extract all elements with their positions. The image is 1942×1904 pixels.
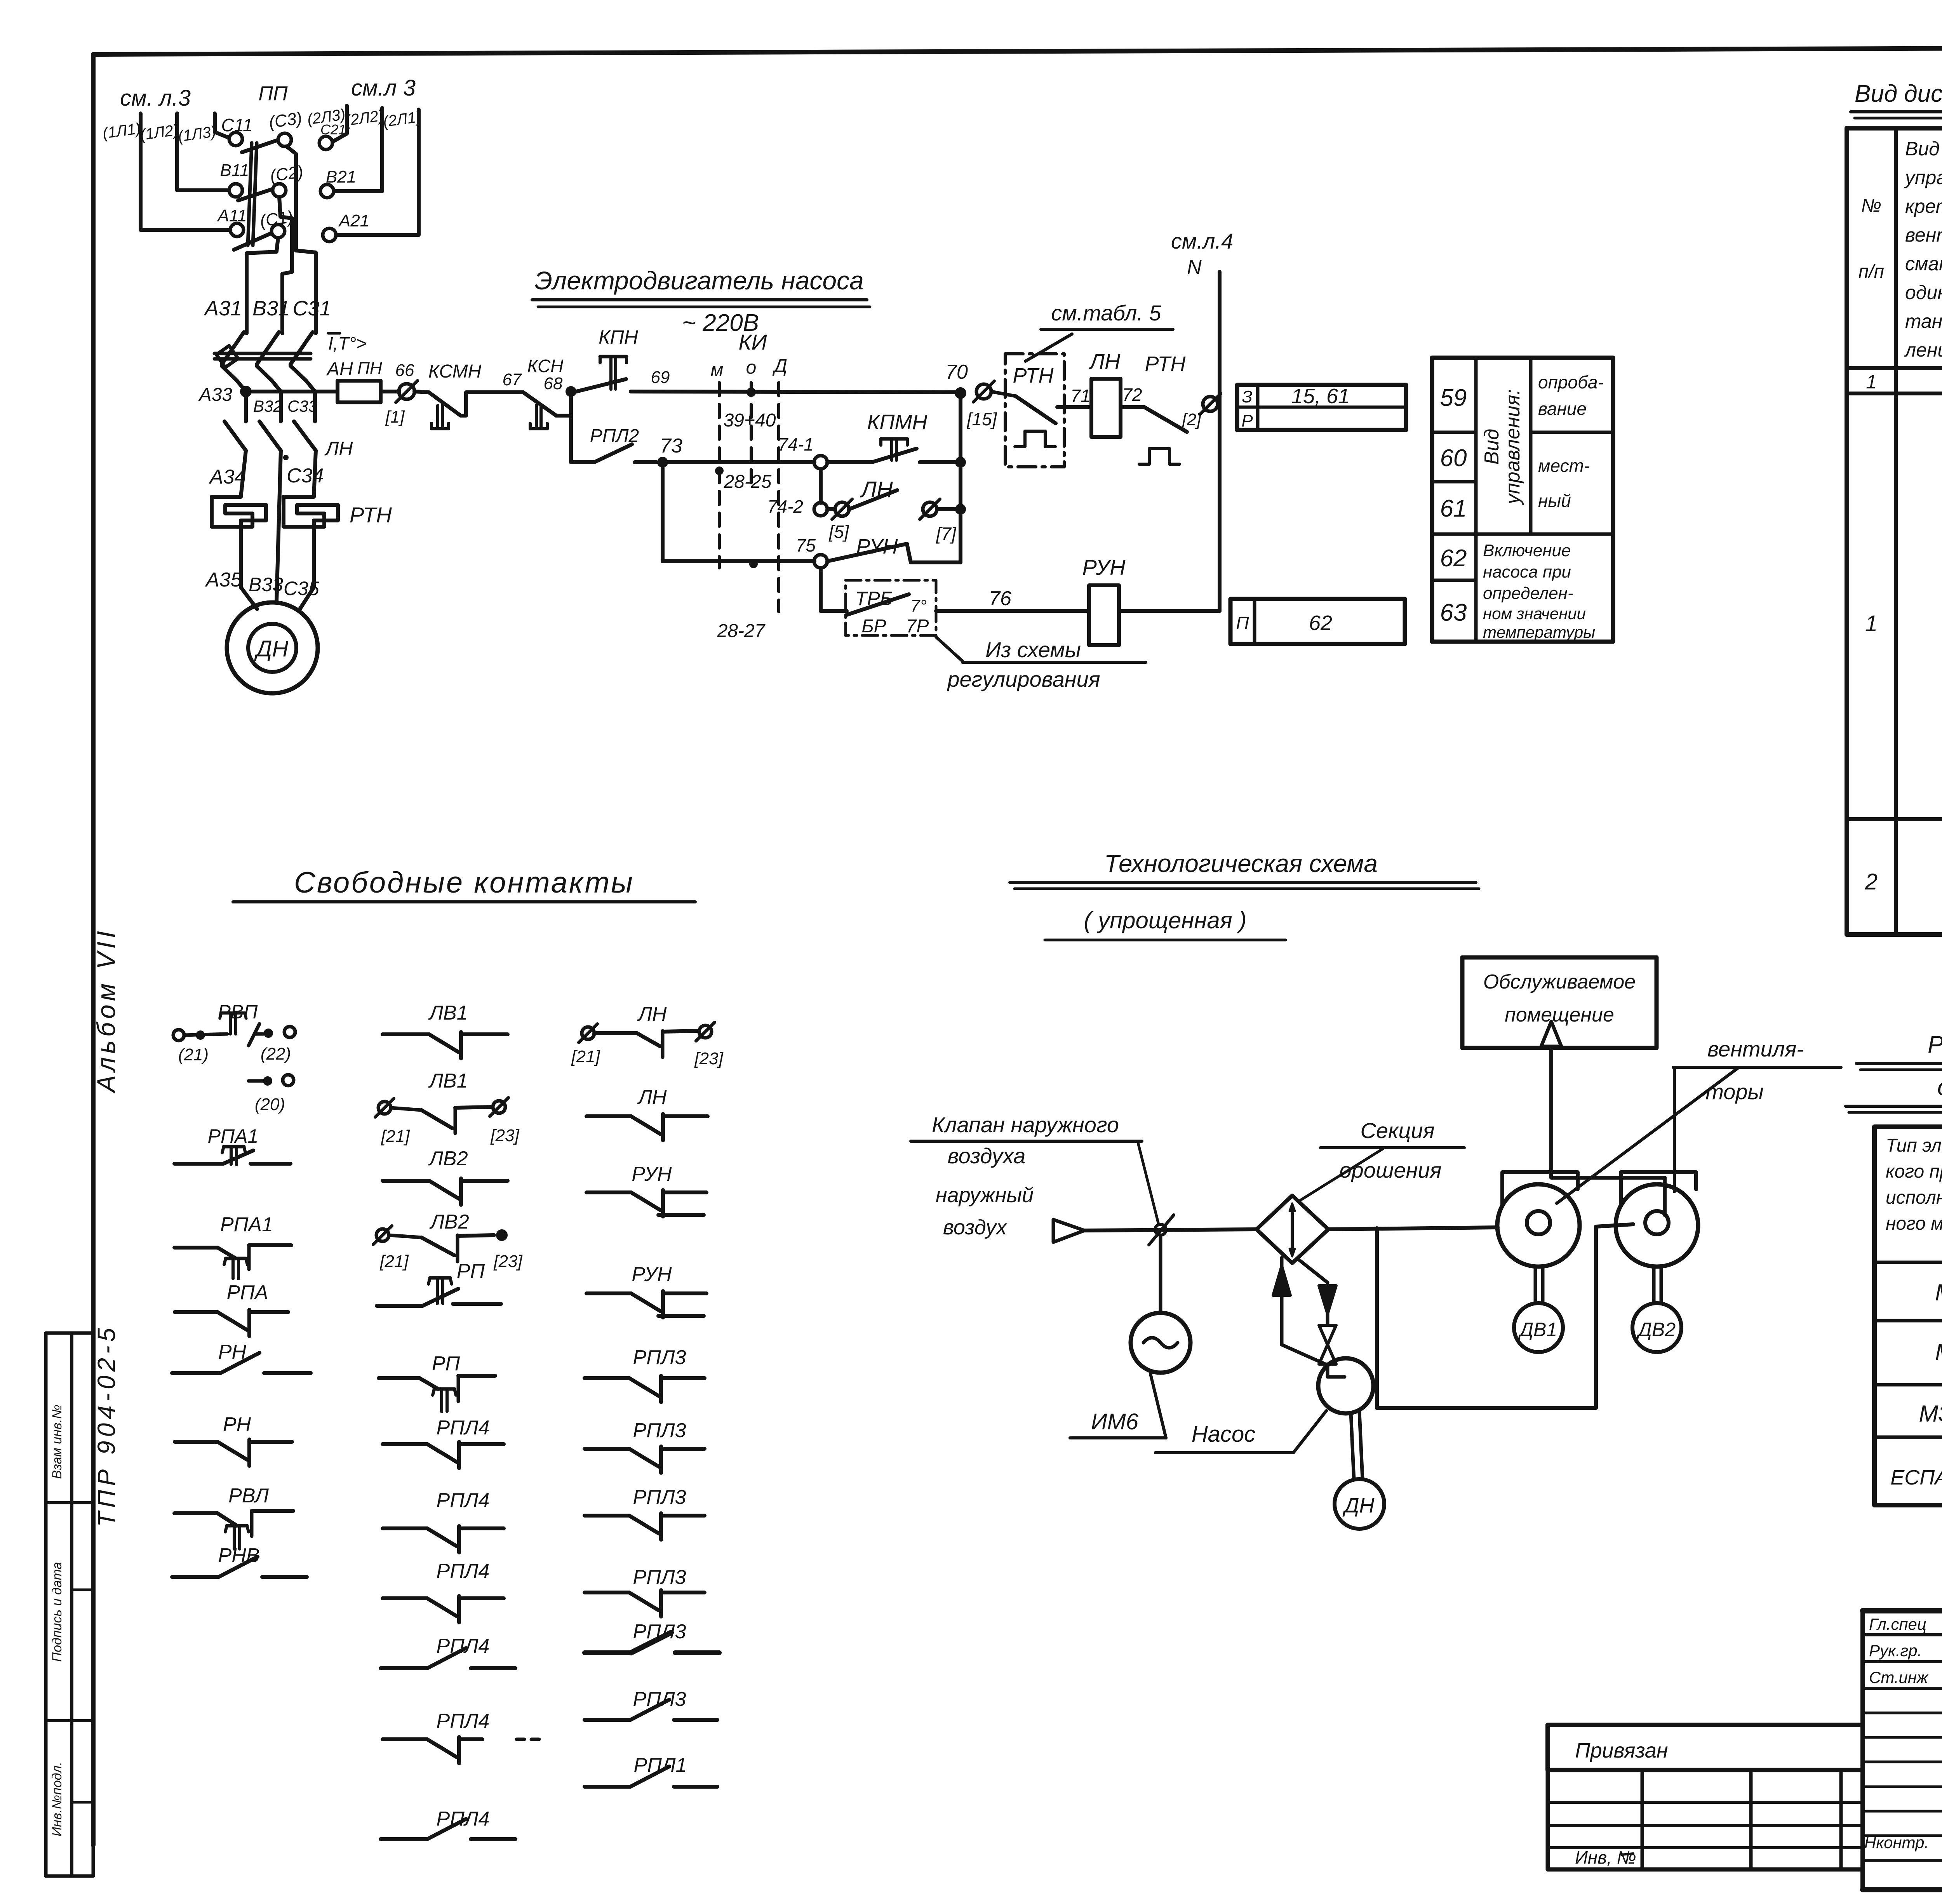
svg-text:[21]: [21] — [379, 1252, 409, 1271]
contact РТН blade — [991, 392, 1016, 396]
contactor ЛН blade C — [294, 421, 316, 451]
contact КСМН blade — [414, 392, 429, 392]
нижняя таблица row3 — [1548, 1846, 1863, 1849]
svg-text:РУН: РУН — [632, 1263, 672, 1286]
contact РП 2 — [379, 1376, 419, 1380]
fan ДВ1 shaft — [1534, 1267, 1537, 1303]
wire row3 — [663, 559, 814, 563]
margin stamp divider row1 — [46, 1501, 93, 1504]
svg-text:Секция: Секция — [1360, 1118, 1434, 1143]
duct line to fans — [1328, 1227, 1498, 1229]
svg-text:РПЛ3: РПЛ3 — [633, 1688, 686, 1711]
contact ТРБ blade — [847, 594, 909, 615]
room arrow triangle — [1541, 1022, 1561, 1046]
svg-text:А34: А34 — [209, 466, 246, 488]
hook КСН — [535, 406, 538, 429]
svg-text:А11: А11 — [216, 206, 247, 225]
label Клапан underline — [911, 1140, 1142, 1143]
svg-text:Технологическая схема: Технологическая схема — [1104, 849, 1378, 877]
duct line inlet — [1084, 1229, 1256, 1230]
wire 74-2 to [5] — [827, 507, 835, 511]
dashed line д — [777, 383, 780, 612]
wire ЛН coil to РТН2 — [1121, 405, 1144, 409]
bypass loop — [1377, 1227, 1596, 1408]
svg-text:N: N — [1187, 256, 1202, 278]
relay box РТН — [1005, 354, 1064, 467]
svg-text:А33: А33 — [198, 385, 233, 405]
switch ПП blade 2 — [238, 189, 272, 200]
svg-text:АН: АН — [326, 359, 353, 379]
box З-Р divider h — [1237, 406, 1406, 409]
svg-text:ЛВ1: ЛВ1 — [428, 1002, 468, 1024]
signature row 4278 — [1863, 1660, 1942, 1663]
svg-text:(22): (22) — [261, 1044, 291, 1063]
table2 outer — [1847, 128, 1942, 935]
contact ЛВ1 — [383, 1032, 429, 1036]
svg-text:2: 2 — [1865, 869, 1878, 895]
svg-text:торы: торы — [1705, 1079, 1764, 1104]
svg-text:1: 1 — [1866, 371, 1877, 393]
wire step КСМН-67 — [461, 392, 523, 416]
dashed line м — [718, 383, 721, 568]
svg-text:помещение: помещение — [1505, 1004, 1614, 1026]
signature thin row 4536 — [1863, 1761, 1942, 1763]
wire collector vertical — [959, 393, 962, 562]
svg-text:Нконтр.: Нконтр. — [1864, 1833, 1929, 1852]
svg-text:В31: В31 — [252, 297, 290, 320]
pulse mark РТН — [1015, 431, 1055, 447]
table вид управления col2 line — [1529, 358, 1533, 534]
table вид управления row line 3 — [1432, 579, 1476, 582]
leader Секция — [1300, 1149, 1383, 1200]
wire 2Л1 feeder — [336, 110, 419, 235]
svg-text:РТН: РТН — [1145, 352, 1186, 376]
wire feed А33 to fuse — [246, 390, 338, 393]
terminal 75 — [814, 555, 827, 568]
привязан box — [1548, 1725, 1863, 1770]
junction 39-40 on о line — [747, 388, 756, 397]
contact circle [15] — [976, 384, 991, 399]
spray diamond arrow — [1291, 1206, 1294, 1254]
contact РУН c1 — [586, 1190, 631, 1194]
svg-text:А21: А21 — [338, 211, 369, 230]
inlet air triangle — [1053, 1220, 1084, 1242]
contact РПА1 2 — [174, 1246, 218, 1250]
svg-text:Рук.гр.: Рук.гр. — [1869, 1641, 1922, 1660]
wire РТН to ЛН coil — [1057, 405, 1091, 409]
contact РУН blade — [827, 544, 907, 561]
svg-text:ления): ления) — [1904, 339, 1942, 361]
signature thin row 4410 — [1863, 1712, 1942, 1714]
svg-text:воздуха: воздуха — [948, 1143, 1026, 1168]
title underline r1 — [1857, 1062, 1942, 1065]
pump Насос circle — [1318, 1358, 1373, 1413]
svg-text:ЛН: ЛН — [1089, 349, 1121, 374]
manifold drop to fan2 — [1663, 1178, 1667, 1215]
terminal A11 — [230, 223, 244, 237]
svg-text:РПЛ4: РПЛ4 — [437, 1417, 490, 1439]
relay box ТРБ-БР — [846, 580, 936, 635]
svg-text:см.л 3: см.л 3 — [351, 75, 416, 101]
contact ЛВ1 2 — [378, 1102, 391, 1114]
svg-text:76: 76 — [989, 587, 1011, 610]
wire C into motor — [300, 555, 314, 609]
svg-text:РПЛ3: РПЛ3 — [633, 1486, 686, 1509]
title Свободные underline — [233, 900, 695, 903]
svg-text:см.табл. 5: см.табл. 5 — [1051, 301, 1161, 325]
terminal C11 — [229, 132, 242, 146]
svg-text:В32: В32 — [253, 397, 282, 415]
fuse ПН — [338, 381, 381, 402]
contact РПЛ3 #1 — [585, 1376, 629, 1380]
leader клапан — [1138, 1143, 1158, 1223]
table вид управления row line 0 — [1432, 431, 1476, 434]
leader вентиляторы 2 — [1673, 1067, 1676, 1192]
wire phase A to РТН — [241, 451, 246, 497]
svg-text:Вид дистанционного: Вид дистанционного — [1905, 138, 1942, 160]
terminal (С3) — [278, 133, 291, 146]
svg-text:Взам инв.№: Взам инв.№ — [50, 1405, 64, 1479]
label см.табл.5 underline — [1041, 328, 1173, 331]
table вид управления col1 line — [1474, 358, 1478, 642]
svg-text:ПП: ПП — [258, 82, 288, 105]
svg-text:ного механизма: ного механизма — [1886, 1213, 1942, 1234]
svg-text:вание: вание — [1538, 399, 1587, 419]
wire damper to ИМБ — [1159, 1235, 1162, 1313]
svg-text:Электродвигатель насоса: Электродвигатель насоса — [534, 266, 864, 295]
switch ПП blade 1 — [242, 140, 277, 152]
svg-text:РТН: РТН — [350, 503, 392, 527]
contact РПЛ3 #3 — [585, 1514, 629, 1518]
table4 outer — [1874, 1127, 1942, 1505]
wire [2] to N line — [1217, 400, 1220, 402]
wire C1 drop — [247, 238, 278, 333]
svg-text:Клапан наружного: Клапан наружного — [932, 1112, 1119, 1137]
svg-text:Инв.№подл.: Инв.№подл. — [50, 1762, 64, 1836]
svg-text:ном значении: ном значении — [1483, 604, 1586, 623]
wire C3 drop — [287, 146, 316, 333]
svg-text:68: 68 — [544, 374, 563, 393]
нижняя таблица row2 — [1548, 1824, 1863, 1827]
svg-text:[15]: [15] — [967, 409, 997, 429]
wire 75 down to ТРБ — [821, 568, 847, 611]
svg-text:КСН: КСН — [527, 356, 564, 376]
contact РПЛ3 #2 — [585, 1447, 629, 1451]
wire 1Л3 feeder — [215, 113, 229, 138]
drain pipe with arrow — [1297, 1258, 1328, 1283]
svg-text:см. л.3: см. л.3 — [120, 85, 191, 111]
contact РПЛ3 #6 — [585, 1718, 630, 1722]
table4 row line y3400 — [1874, 1319, 1942, 1323]
terminal 74-2 — [814, 503, 827, 516]
svg-text:74-1: 74-1 — [778, 434, 814, 454]
box П 62 — [1230, 599, 1405, 644]
svg-text:РПЛ3: РПЛ3 — [633, 1419, 686, 1442]
contact РВП lower terminal — [249, 1079, 264, 1083]
contact ЛН blade — [849, 490, 897, 509]
contact ЛН c2 — [586, 1114, 631, 1118]
svg-text:( упрощенная ): ( упрощенная ) — [1084, 907, 1247, 933]
contact circle 66 [1] — [399, 384, 414, 399]
contact КПМН blade — [872, 449, 917, 462]
svg-text:7°: 7° — [910, 597, 927, 616]
wire step КСН-68 — [556, 392, 571, 416]
svg-text:управления:: управления: — [1502, 389, 1524, 505]
svg-text:регулирования: регулирования — [947, 667, 1100, 691]
svg-text:70: 70 — [945, 361, 968, 383]
svg-text:[2]: [2] — [1182, 410, 1202, 429]
svg-text:КПН: КПН — [599, 326, 639, 348]
wire 1Л1 feeder — [141, 113, 230, 230]
signature row 4347 — [1863, 1687, 1942, 1690]
wire 74-1 to КПМН — [827, 460, 872, 464]
svg-text:ДВ2: ДВ2 — [1636, 1319, 1676, 1340]
terminal B11 — [229, 184, 242, 197]
wire 69 run — [631, 392, 961, 392]
svg-text:Подпись и дата: Подпись и дата — [50, 1562, 64, 1662]
table вид управления divider right2 — [1476, 533, 1613, 536]
pushbutton КПМН — [881, 437, 907, 441]
callout underline — [962, 661, 1146, 664]
svg-text:РПА: РПА — [226, 1281, 268, 1304]
svg-text:ЕСПА-02ПВ(НРБ): ЕСПА-02ПВ(НРБ) — [1890, 1466, 1942, 1489]
svg-text:15, 61: 15, 61 — [1291, 385, 1350, 408]
motor ДВ2 circle — [1632, 1303, 1681, 1352]
junction 70 — [955, 387, 966, 399]
pushbutton КПН — [600, 355, 626, 359]
terminal (С1) — [271, 225, 285, 238]
нижняя таблица col1 — [1641, 1770, 1644, 1869]
label ИМБ underline — [1070, 1436, 1166, 1439]
svg-text:С33: С33 — [287, 397, 317, 415]
svg-text:73: 73 — [660, 435, 682, 457]
breaker АН blade A — [222, 332, 244, 364]
wire 76 run — [936, 609, 1089, 613]
leader вентиляторы 1 — [1557, 1067, 1739, 1203]
svg-text:1: 1 — [1865, 611, 1878, 636]
svg-text:кретной приточной: кретной приточной — [1905, 195, 1942, 217]
contact ЛВ2 — [383, 1179, 429, 1183]
contactor ЛН blade A — [224, 421, 246, 451]
svg-text:температуры: температуры — [1483, 623, 1595, 641]
svg-text:А35: А35 — [205, 569, 242, 591]
titleblock top line — [1863, 1608, 1942, 1613]
heater РТН phase A — [212, 497, 266, 555]
contact РПЛ2 — [571, 460, 594, 464]
signature thin row 4473 — [1863, 1736, 1942, 1739]
margin stamp divider row2 — [46, 1719, 93, 1722]
title tech underline — [1010, 881, 1476, 884]
svg-text:РПЛ3: РПЛ3 — [633, 1566, 686, 1589]
svg-text:обозначения контакта ИМБ: обозначения контакта ИМБ — [1937, 1074, 1942, 1101]
wire 68 down — [569, 392, 573, 462]
svg-text:62: 62 — [1309, 611, 1332, 635]
contact РУН c2 — [586, 1291, 631, 1295]
breaker АН blade B — [257, 332, 279, 364]
svg-text:мест-: мест- — [1538, 456, 1590, 476]
svg-text:ЛН: ЛН — [324, 438, 353, 459]
contact РТН2 blade — [1144, 407, 1187, 432]
svg-text:м: м — [711, 360, 724, 380]
margin stamp divider row3 — [72, 1589, 93, 1591]
нижняя таблица col2 — [1749, 1770, 1753, 1869]
border frame left — [91, 54, 96, 1845]
svg-text:С31: С31 — [292, 297, 331, 320]
box З-Р divider v — [1256, 385, 1260, 430]
svg-text:69: 69 — [651, 368, 670, 387]
bypass to fan2 — [1596, 1224, 1633, 1227]
wire phase C to РТН — [314, 451, 316, 497]
svg-text:Включение: Включение — [1483, 541, 1571, 560]
terminal 74-1 — [814, 456, 827, 469]
svg-text:Расшифровка условного: Расшифровка условного — [1928, 1031, 1942, 1058]
svg-text:[21]: [21] — [571, 1047, 600, 1066]
label вентиляторы underline — [1673, 1066, 1841, 1069]
title underline — [532, 298, 867, 301]
contact РНВ — [172, 1575, 219, 1579]
svg-text:РПЛ4: РПЛ4 — [437, 1489, 490, 1512]
switch ПП bars — [248, 143, 252, 245]
svg-text:о: о — [746, 357, 757, 378]
margin stamp table box — [46, 1333, 93, 1876]
table4 row line y3700 — [1874, 1436, 1942, 1439]
svg-text:РУН: РУН — [1082, 555, 1126, 580]
wire fuse to contact 66 — [381, 390, 399, 393]
room box Обслуживаемое помещение — [1462, 957, 1657, 1048]
manifold horizontal — [1551, 1176, 1665, 1180]
svg-text:72: 72 — [1122, 385, 1142, 405]
svg-text:РПА1: РПА1 — [208, 1125, 259, 1147]
svg-text:Гл.спец: Гл.спец — [1869, 1615, 1926, 1633]
wire 2Л3 feeder — [332, 106, 347, 142]
contact РПА — [175, 1310, 218, 1314]
svg-text:Из схемы: Из схемы — [985, 637, 1081, 662]
wire 74-1 to 74-2 — [819, 469, 823, 503]
terminal С21 — [319, 136, 332, 150]
нижняя таблица col3 — [1839, 1770, 1843, 1869]
signature thin row 4790 — [1863, 1859, 1942, 1862]
svg-text:В11: В11 — [220, 161, 249, 180]
signature thin row 4600 — [1863, 1786, 1942, 1788]
table4 row line y3565 — [1874, 1383, 1942, 1387]
junction 68 — [566, 386, 576, 397]
terminal (С2) — [273, 184, 286, 197]
svg-text:59: 59 — [1440, 385, 1467, 411]
box З-Р 15,61 — [1237, 385, 1406, 430]
svg-text:один из видов дис-: один из видов дис- — [1905, 282, 1942, 303]
svg-text:КПМН: КПМН — [867, 411, 928, 434]
svg-text:Привязан: Привязан — [1575, 1739, 1668, 1762]
svg-text:В33: В33 — [249, 574, 283, 595]
contact РН 2 — [175, 1440, 218, 1444]
contact РПЛ4 #3 — [383, 1596, 427, 1600]
svg-text:кого привода: кого привода — [1886, 1161, 1942, 1182]
coil РУН — [1089, 585, 1119, 645]
svg-text:I,Т°>: I,Т°> — [328, 333, 367, 353]
svg-text:орошения: орошения — [1340, 1158, 1442, 1182]
breaker АН curve C — [291, 366, 315, 421]
drain valve — [1319, 1325, 1336, 1345]
junction А33 — [240, 386, 252, 397]
wire РУН coil to N — [1119, 609, 1220, 613]
breaker АН curve A — [222, 366, 246, 392]
svg-text:(21): (21) — [178, 1045, 209, 1064]
svg-text:75: 75 — [796, 535, 816, 555]
svg-text:ДВ1: ДВ1 — [1518, 1319, 1557, 1340]
contact ЛН c1 — [582, 1027, 594, 1039]
svg-text:Вид дистанционного управлен: Вид дистанционного управления вентилятор… — [1855, 80, 1942, 107]
svg-text:Насос: Насос — [1192, 1422, 1255, 1447]
svg-text:№: № — [1861, 195, 1881, 216]
svg-text:60: 60 — [1440, 445, 1467, 472]
svg-text:ЛВ2: ЛВ2 — [428, 1147, 468, 1170]
wire [7] to collector — [937, 507, 961, 511]
callout Из схемы leader — [936, 637, 962, 661]
label Насос underline — [1155, 1451, 1293, 1454]
signature thin row 4663 — [1863, 1810, 1942, 1813]
svg-text:28-25: 28-25 — [724, 472, 772, 492]
svg-text:п/п: п/п — [1858, 261, 1884, 282]
svg-text:[23]: [23] — [490, 1126, 520, 1145]
wire 73 down — [661, 462, 665, 561]
hook КСМН — [436, 406, 439, 429]
svg-text:опроба-: опроба- — [1538, 372, 1604, 392]
contact РВЛ — [174, 1511, 218, 1515]
titleblock bottom — [1863, 1887, 1942, 1892]
wire phase B to motor — [277, 451, 281, 602]
table4 row line y3250 — [1874, 1261, 1942, 1264]
heater РТН phase C — [284, 497, 338, 555]
svg-text:[23]: [23] — [493, 1252, 523, 1271]
contact РПЛ1 — [585, 1785, 630, 1789]
svg-text:ТПР 904-02-5: ТПР 904-02-5 — [92, 1324, 120, 1527]
damper valve circle — [1155, 1224, 1166, 1235]
junction row2 collector — [955, 457, 966, 468]
svg-text:Альбом VII: Альбом VII — [92, 928, 120, 1094]
svg-text:РПА1: РПА1 — [220, 1213, 273, 1236]
contact РПЛ3 #5 — [585, 1650, 631, 1655]
svg-text:МЭО - 4: МЭО - 4 — [1935, 1279, 1942, 1305]
pump supply pipe — [1280, 1258, 1284, 1293]
wire C2 drop — [279, 197, 292, 333]
wire 2Л2 feeder — [334, 108, 382, 191]
terminal А21 — [323, 228, 336, 242]
wire КПМН to collector — [920, 460, 961, 464]
svg-text:РПЛ4: РПЛ4 — [437, 1635, 490, 1657]
contact РН — [172, 1371, 221, 1375]
svg-text:ЛВ1: ЛВ1 — [428, 1070, 468, 1092]
title underline r2 — [1846, 1105, 1942, 1108]
junction 73 — [657, 457, 668, 468]
svg-text:танционного управ-: танционного управ- — [1905, 310, 1942, 332]
svg-text:61: 61 — [1440, 495, 1467, 522]
svg-text:РП: РП — [432, 1352, 460, 1375]
contact РПЛ4 #2 — [383, 1526, 427, 1530]
svg-text:см.л.4: см.л.4 — [1171, 229, 1233, 253]
wire A into motor — [241, 555, 257, 609]
svg-text:39+40: 39+40 — [724, 410, 776, 431]
contact circle [5] — [835, 502, 849, 516]
contact ЛВ2 2 — [376, 1229, 389, 1241]
contact circle [7] — [923, 502, 937, 516]
svg-text:исполнитель-: исполнитель- — [1886, 1187, 1942, 1208]
svg-text:ПН: ПН — [357, 359, 382, 378]
svg-text:ный: ный — [1538, 491, 1571, 511]
signature table outline — [1863, 1611, 1942, 1890]
svg-text:БР: БР — [861, 616, 886, 637]
svg-text:КСМН: КСМН — [428, 361, 482, 382]
title tech underline2 — [1045, 939, 1286, 942]
